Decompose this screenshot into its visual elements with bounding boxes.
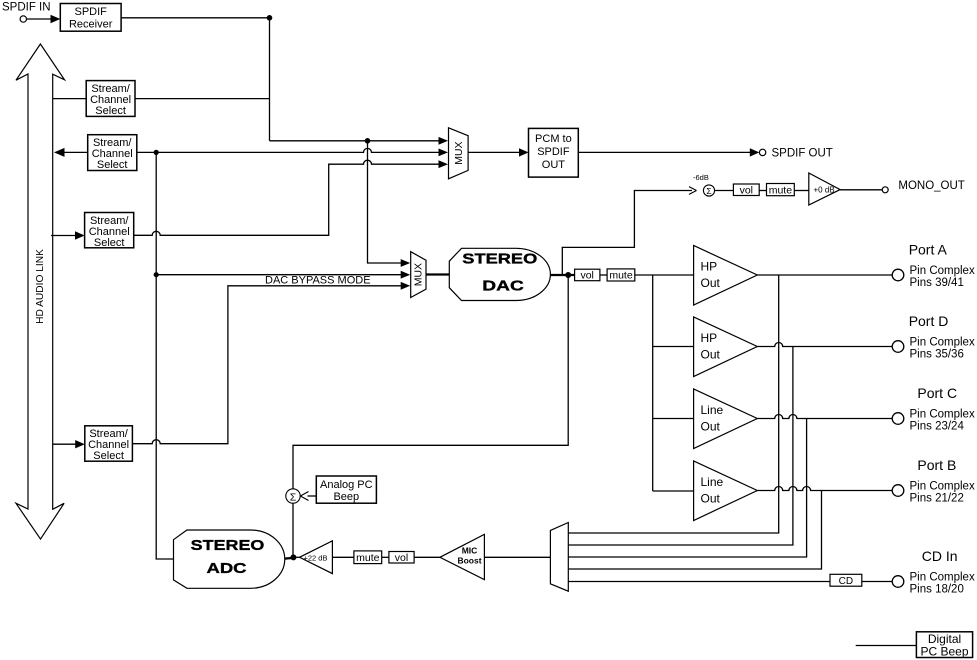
wire DAC output down to analog beep sum	[293, 275, 568, 489]
input select mux U4	[550, 523, 568, 592]
wire sum to ADC node	[292, 503, 294, 557]
SPDIF Receiver U1	[60, 4, 121, 32]
summer -6dB	[703, 185, 714, 196]
wire riser 3 Port C to input mux	[568, 419, 806, 558]
arrowhead MUX2 input 3	[401, 282, 411, 290]
Analog PC Beep box	[316, 476, 376, 503]
svg-text:Pins 21/22: Pins 21/22	[910, 493, 964, 505]
svg-text:Out: Out	[701, 420, 721, 434]
arrowhead into box3	[75, 231, 85, 239]
SPDIF OUT terminal	[759, 148, 832, 160]
wire Port A line	[757, 274, 892, 276]
wire input mux to MIC boost	[484, 556, 550, 558]
wire vol to mute (mono)	[759, 190, 766, 192]
svg-text:MUX: MUX	[413, 263, 425, 286]
svg-text:HD AUDIO LINK: HD AUDIO LINK	[35, 249, 46, 324]
wire MIC boost to vol (adc)	[414, 556, 440, 558]
wire DAC output to vol	[550, 274, 574, 276]
wire mute to HP amp1 with amp bus tap	[635, 274, 694, 276]
wire CD line to input mux	[568, 581, 830, 583]
svg-text:Port B: Port B	[917, 457, 956, 473]
svg-text:Pin Complex: Pin Complex	[910, 337, 975, 349]
wire sum to vol (mono)	[715, 190, 734, 192]
svg-text:vol: vol	[740, 185, 753, 197]
amp MIC Boost	[440, 534, 485, 579]
arrowhead into PCM box	[519, 148, 529, 156]
wire vol to mute (adc)	[382, 556, 389, 558]
STEREO DAC	[449, 248, 550, 300]
vol box dac	[575, 269, 600, 281]
CD box	[830, 574, 862, 587]
CD In terminal	[892, 548, 975, 596]
svg-text:Select: Select	[93, 450, 124, 462]
Stream/Channel Select box 3	[85, 213, 134, 250]
wire amp input bus	[653, 275, 694, 491]
svg-text:mute: mute	[609, 270, 633, 282]
svg-text:-6dB: -6dB	[693, 173, 709, 182]
wire bus to MUX2 input 2	[156, 274, 406, 276]
arrowhead MUX1 input 3	[439, 160, 449, 168]
svg-text:DAC BYPASS MODE: DAC BYPASS MODE	[265, 274, 371, 286]
Stream/Channel Select box 1	[86, 81, 135, 117]
mute box mono	[767, 184, 795, 197]
svg-text:mute: mute	[356, 552, 380, 564]
wire PCM box to SPDIF OUT terminal	[578, 151, 751, 153]
wire Port B line with hops	[757, 487, 892, 491]
svg-text:SPDIF IN: SPDIF IN	[2, 2, 51, 14]
svg-text:Port A: Port A	[909, 242, 948, 258]
svg-text:Pins 35/36: Pins 35/36	[910, 349, 964, 361]
amp HP Out 2	[694, 317, 758, 377]
HD AUDIO LINK double arrow	[16, 44, 65, 539]
wire mono tap staircase	[562, 191, 692, 276]
svg-text:Select: Select	[94, 237, 125, 249]
wire riser 2 Port D to input mux	[568, 347, 793, 546]
svg-text:SPDIF: SPDIF	[537, 146, 570, 158]
wire vertical bus ADC to box2 row	[156, 152, 173, 559]
wire node to ADC	[285, 557, 294, 560]
wire MUX2 to DAC	[426, 273, 449, 275]
svg-text:PCM to: PCM to	[535, 133, 572, 145]
wire mute to +22dB amp	[332, 556, 354, 558]
wire Port D line with hop	[757, 343, 892, 347]
Port B terminal	[892, 457, 975, 505]
Stream/Channel Select box 2	[88, 135, 137, 171]
junction dot bus at DAC row	[154, 272, 159, 277]
svg-text:SPDIF: SPDIF	[74, 6, 107, 18]
amp +0 dB	[809, 173, 840, 205]
amp +22 dB	[300, 541, 333, 574]
arrowhead MUX2 input 1	[401, 259, 411, 267]
arrowhead box2 to link	[54, 148, 65, 157]
svg-text:ADC: ADC	[207, 560, 247, 577]
svg-text:Pins 39/41: Pins 39/41	[910, 277, 964, 289]
PCM to SPDIF OUT box	[529, 128, 579, 177]
STEREO ADC	[174, 530, 285, 588]
svg-text:Port D: Port D	[909, 313, 949, 329]
svg-text:Pin Complex: Pin Complex	[910, 572, 975, 584]
svg-text:Pin Complex: Pin Complex	[910, 409, 975, 421]
svg-text:Pin Complex: Pin Complex	[910, 265, 975, 277]
svg-text:Analog PC: Analog PC	[320, 479, 373, 491]
MUX U2	[449, 128, 469, 179]
wire box2 to link	[63, 151, 88, 153]
wire mute to +0dB amp	[794, 190, 809, 192]
Digital PC Beep box	[916, 632, 972, 659]
Port A terminal	[892, 242, 975, 290]
svg-text:Pin Complex: Pin Complex	[910, 481, 975, 493]
junction dot node top	[365, 138, 371, 144]
junction dot receiver corner	[267, 15, 273, 21]
vol box mono	[733, 184, 759, 197]
svg-text:Boost: Boost	[457, 556, 481, 566]
wire +22dB to ADC node	[293, 556, 299, 558]
svg-text:Out: Out	[701, 348, 721, 362]
wire riser 4 Port B to input mux	[568, 491, 821, 570]
svg-text:CD In: CD In	[922, 548, 958, 564]
SPDIF IN terminal	[2, 2, 51, 23]
wire box4 output DAC bypass to MUX2 input 3 with hop	[132, 286, 406, 444]
wire riser 1 Port A to input mux	[568, 275, 778, 533]
arrowhead into box4	[75, 440, 85, 448]
Stream/Channel Select box 4	[85, 426, 133, 462]
junction dot ADC input	[290, 554, 296, 560]
amp Line Out 3	[694, 389, 758, 449]
svg-text:Select: Select	[97, 159, 128, 171]
svg-text:DAC: DAC	[482, 278, 524, 295]
MUX U3	[411, 252, 426, 298]
wire node down to MUX2 input 1	[368, 141, 407, 263]
svg-text:Pins 23/24: Pins 23/24	[910, 421, 965, 433]
wire link to Stream/Channel Select 1	[53, 98, 86, 100]
mute box adc	[354, 551, 382, 564]
wire MUX1 to PCM box	[468, 151, 525, 153]
wire receiver output to corner	[121, 18, 269, 141]
svg-text:Port C: Port C	[917, 385, 957, 401]
svg-text:Out: Out	[701, 276, 721, 290]
amp Line Out 4	[694, 461, 758, 521]
svg-text:HP: HP	[701, 260, 718, 274]
wire link to Stream/Channel Select 3	[51, 235, 76, 237]
wire box3 output to MUX1 input 3 with hops	[134, 160, 445, 235]
amp HP Out 1	[694, 246, 758, 306]
svg-text:Select: Select	[95, 105, 126, 117]
svg-text:SPDIF OUT: SPDIF OUT	[772, 148, 833, 160]
svg-text:Pins 18/20: Pins 18/20	[910, 584, 964, 596]
open arrowhead into -6dB sum	[689, 187, 697, 195]
svg-text:HP: HP	[701, 331, 718, 345]
svg-text:OUT: OUT	[542, 159, 566, 171]
svg-text:Beep: Beep	[333, 491, 359, 503]
svg-text:STEREO: STEREO	[191, 537, 265, 554]
svg-text:Σ: Σ	[290, 491, 297, 503]
arrowhead MUX1 input 1	[439, 137, 449, 145]
svg-text:MONO_OUT: MONO_OUT	[898, 180, 964, 192]
vol box adc	[389, 552, 414, 564]
svg-text:CD: CD	[839, 576, 853, 587]
svg-text:Receiver: Receiver	[69, 19, 113, 31]
wire link to Stream/Channel Select 4	[52, 443, 76, 445]
arrowhead MUX1 input 2	[439, 149, 449, 157]
arrowhead into SPDIF Receiver	[51, 15, 61, 23]
junction dot bus top	[154, 150, 159, 155]
svg-text:vol: vol	[395, 552, 408, 564]
open arrowhead into analog beep sum	[300, 492, 308, 501]
arrowhead MUX2 input 2	[401, 271, 411, 279]
MONO_OUT terminal	[882, 180, 965, 193]
wire SPDIF IN to receiver	[27, 18, 53, 20]
svg-text:Σ: Σ	[706, 186, 711, 196]
wire beep box to sum	[308, 495, 317, 497]
wire digital beep stub	[856, 645, 917, 647]
svg-text:Line: Line	[701, 475, 724, 489]
junction dot DAC output	[565, 272, 571, 278]
wire box1 output to vertical	[135, 98, 270, 100]
mute box dac	[607, 269, 635, 282]
svg-text:mute: mute	[769, 185, 793, 197]
svg-text:MUX: MUX	[453, 141, 465, 164]
arrowhead SPDIF OUT	[750, 148, 760, 156]
svg-text:+22 dB: +22 dB	[304, 553, 328, 562]
wire vertical corner to MUX1 input 1	[270, 140, 446, 142]
wire box2 row to MUX1 input 2 with hop	[137, 148, 445, 152]
Port C terminal	[892, 385, 975, 433]
svg-text:Line: Line	[701, 403, 724, 417]
summer analog beep	[286, 489, 300, 504]
wire +0dB to MONO_OUT terminal	[840, 189, 882, 191]
svg-text:PC Beep: PC Beep	[920, 645, 968, 659]
svg-text:+0 dB: +0 dB	[814, 186, 835, 195]
wire vol to mute dac	[600, 274, 607, 276]
svg-text:STEREO: STEREO	[462, 251, 537, 268]
svg-text:vol: vol	[580, 270, 593, 282]
wire Port C line with hops	[757, 415, 892, 419]
Port D terminal	[892, 313, 975, 361]
wire CD box to CD In port	[862, 581, 892, 583]
svg-text:MIC: MIC	[462, 546, 478, 556]
svg-text:Out: Out	[701, 492, 721, 506]
